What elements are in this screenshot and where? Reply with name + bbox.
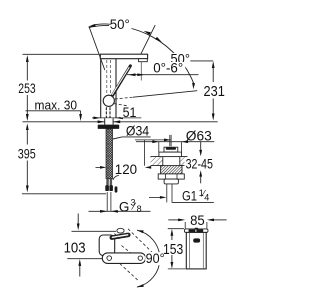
svg-text:51: 51	[123, 105, 137, 120]
svg-text:G: G	[119, 200, 130, 215]
svg-text:395: 395	[18, 145, 36, 161]
svg-text:153: 153	[163, 242, 183, 258]
svg-text:85: 85	[190, 213, 205, 229]
svg-text:8: 8	[137, 204, 142, 214]
svg-text:32-45: 32-45	[186, 156, 214, 171]
svg-text:103: 103	[64, 240, 86, 256]
svg-text:0°-6°: 0°-6°	[153, 61, 183, 76]
svg-text:90°: 90°	[146, 251, 165, 266]
svg-text:Ø63: Ø63	[186, 128, 212, 143]
svg-text:50°: 50°	[110, 16, 130, 32]
svg-text:231: 231	[204, 84, 225, 100]
svg-text:Ø34: Ø34	[126, 124, 149, 139]
svg-text:max. 30: max. 30	[35, 98, 78, 113]
svg-text:253: 253	[18, 80, 35, 96]
